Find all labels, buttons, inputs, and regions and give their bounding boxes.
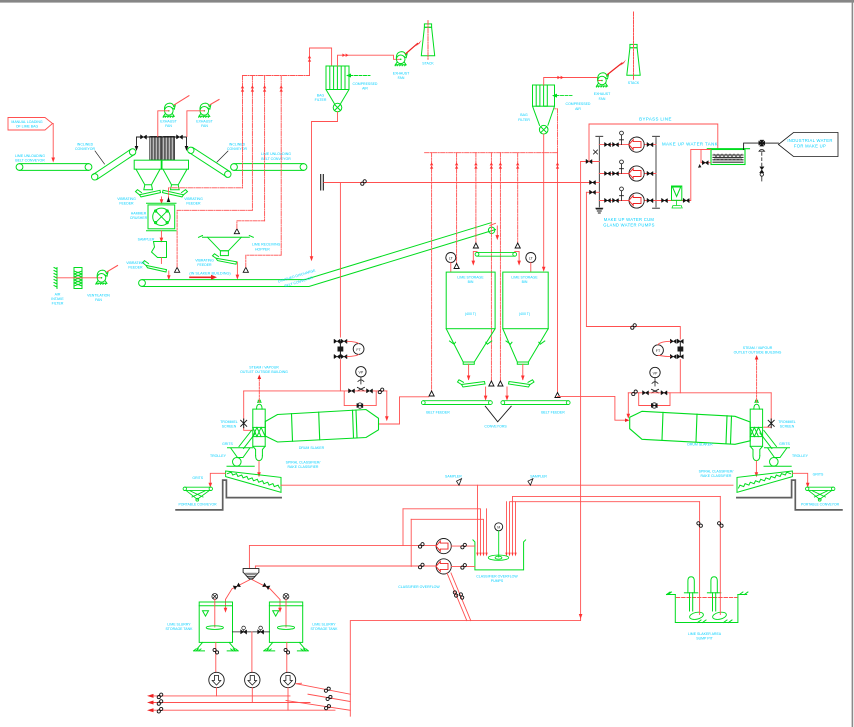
gland water to right slaker bbox=[586, 192, 680, 339]
orifice run valves upper (right) bbox=[670, 339, 676, 343]
feed line to left slaker bbox=[339, 183, 341, 338]
wire crusher to sampler bbox=[160, 231, 162, 239]
sump return line 2 bbox=[510, 502, 700, 553]
header block valve left bbox=[349, 389, 355, 393]
dust delta (left drum line) bbox=[429, 391, 434, 396]
wire feeders to crusher bbox=[161, 197, 163, 201]
slurry pump 1 bbox=[209, 672, 224, 687]
svg-text:BIN: BIN bbox=[468, 280, 474, 284]
conveyor left delta bbox=[473, 243, 478, 248]
svg-text:CLASSIFIER OVERFLOW: CLASSIFIER OVERFLOW bbox=[476, 575, 518, 579]
drum slaker (left) bbox=[265, 410, 378, 443]
dust manifold (upper) bbox=[243, 75, 310, 77]
svg-text:PUMPS: PUMPS bbox=[491, 579, 504, 583]
delivery line 3 bbox=[154, 709, 336, 711]
svg-text:LIME STORAGE: LIME STORAGE bbox=[457, 275, 484, 279]
svg-text:TROMMEL: TROMMEL bbox=[778, 420, 796, 424]
svg-text:FEEDER: FEEDER bbox=[197, 263, 212, 267]
svg-text:MANUAL LOADING: MANUAL LOADING bbox=[11, 120, 42, 124]
svg-text:SAMPLER: SAMPLER bbox=[138, 237, 155, 241]
dust line belt to manifold drop4 bbox=[246, 255, 281, 267]
feeder delta 2 bbox=[498, 381, 503, 386]
svg-text:STORAGE TANK: STORAGE TANK bbox=[310, 627, 338, 631]
manifold drop D between bins bbox=[490, 153, 492, 381]
wire vessel to classifier bbox=[258, 461, 260, 474]
flex on header bbox=[361, 180, 367, 186]
vertical vessel / trommel (right) bbox=[750, 400, 762, 460]
inter-tank drain line bbox=[233, 631, 270, 633]
trolley (left) bbox=[227, 448, 254, 466]
drum slaker (right) bbox=[630, 411, 751, 444]
svg-text:LIME SLURRY: LIME SLURRY bbox=[312, 622, 336, 626]
classifier overflow line bbox=[281, 484, 733, 486]
slurry pump 2 bbox=[245, 672, 260, 687]
hammer crusher bbox=[147, 203, 177, 230]
svg-text:FEEDER: FEEDER bbox=[186, 201, 201, 205]
LT instrument bin2 bbox=[526, 253, 536, 263]
discharge line 2 bbox=[589, 182, 599, 184]
svg-text:CONVEYOR: CONVEYOR bbox=[227, 147, 248, 151]
dust manifold (lower) bbox=[425, 152, 558, 154]
baghouse suction pipe (black) bbox=[137, 137, 187, 147]
wall penetration symbol bbox=[321, 175, 324, 191]
banner INDUSTRIAL WATER FOR MAKE UP bbox=[778, 133, 838, 157]
svg-text:(IN SLAKER BUILDING): (IN SLAKER BUILDING) bbox=[189, 272, 231, 276]
dust line belt to manifold drop2 bbox=[177, 210, 252, 267]
conveyor right delta bbox=[515, 243, 520, 248]
extra drop into tank right bbox=[515, 502, 517, 553]
bypass around control valve bbox=[344, 391, 376, 406]
grits chute (right) bbox=[760, 431, 777, 449]
bag filter (top centre) bbox=[326, 66, 349, 112]
sump pump 1 bbox=[684, 577, 704, 621]
discharge line 3 bbox=[586, 191, 599, 193]
steam vapour vent (left) bbox=[258, 378, 260, 403]
dust delta (right drum line) bbox=[555, 393, 560, 398]
flow arrow fan to stack (right) bbox=[608, 63, 623, 75]
pump tails to delivery lines bbox=[217, 688, 289, 711]
svg-text:FILTER: FILTER bbox=[52, 302, 64, 306]
svg-text:BAG: BAG bbox=[520, 113, 528, 117]
svg-text:HAMMER: HAMMER bbox=[131, 212, 147, 216]
svg-text:EXHAUST: EXHAUST bbox=[594, 92, 611, 96]
trommel spray valve (X) bbox=[241, 419, 247, 428]
gland water main down-centre bbox=[580, 162, 582, 620]
stack (right) bbox=[627, 44, 640, 75]
pump discharge header (right black) bbox=[653, 136, 660, 208]
drain leg with check bbox=[759, 149, 765, 181]
svg-text:FAN: FAN bbox=[599, 97, 606, 101]
pump discharge to distributor funnel bbox=[249, 545, 436, 567]
svg-text:LIME SLAKER AREA: LIME SLAKER AREA bbox=[688, 632, 722, 636]
manifold drop 4 bbox=[280, 76, 282, 256]
svg-text:INDUSTRIAL WATER: INDUSTRIAL WATER bbox=[787, 138, 832, 143]
control valve with actuator (right) bbox=[652, 378, 658, 386]
crushed discharge belt conveyor bbox=[139, 223, 496, 287]
svg-text:BELT FEEDER: BELT FEEDER bbox=[426, 411, 450, 415]
lime storage bin 2 bbox=[503, 272, 548, 364]
compressed air line (right) bbox=[556, 95, 572, 97]
bag filter (right) bbox=[533, 85, 555, 134]
sump riser 1 bbox=[699, 502, 701, 615]
discharge diagonals to lower header bbox=[447, 573, 471, 621]
drain drop to pump2 bbox=[251, 632, 253, 672]
wire conveyor to bin1 bbox=[473, 251, 477, 261]
wire to control station (right) bbox=[679, 360, 681, 393]
svg-text:VP: VP bbox=[359, 371, 364, 375]
svg-text:(400 T): (400 T) bbox=[519, 312, 530, 316]
svg-text:BELT FEEDER: BELT FEEDER bbox=[541, 411, 565, 415]
svg-text:FILTER: FILTER bbox=[315, 98, 327, 102]
wire right bag filter discharge into bin2 bbox=[543, 134, 545, 268]
wire manifold up to bag filter bbox=[310, 48, 332, 76]
svg-text:SCREEN: SCREEN bbox=[222, 425, 237, 429]
flex on right slaker line bbox=[631, 324, 637, 330]
dust line crusher to manifold bbox=[169, 188, 243, 200]
pump suction stubs bbox=[451, 546, 475, 566]
extra return drop bbox=[506, 502, 508, 553]
sampler 1 bbox=[457, 479, 462, 486]
orifice plate bbox=[338, 341, 343, 356]
wire bin1 outlet bbox=[468, 364, 470, 379]
bag filter cell (right, striped) bbox=[163, 137, 175, 161]
ventilation fan bbox=[96, 270, 108, 284]
spiral classifier (right) bbox=[737, 471, 792, 492]
orifice run valves upper bbox=[334, 339, 340, 343]
overflow pump 2 bbox=[436, 559, 451, 574]
header right leg to trommel valve (right stn) bbox=[764, 393, 771, 427]
wire conveyor to bin2 bbox=[515, 251, 519, 261]
bin distribution conveyor bbox=[475, 252, 516, 256]
svg-text:EXHAUST: EXHAUST bbox=[160, 120, 177, 124]
dust line hopper to manifold drop3 bbox=[237, 221, 265, 229]
sump pit bbox=[667, 592, 748, 623]
valve on baghouse pipe bbox=[177, 135, 183, 139]
svg-text:STORAGE TANK: STORAGE TANK bbox=[165, 627, 193, 631]
inclined conveyor (left) bbox=[92, 149, 136, 180]
svg-text:INCLINED: INCLINED bbox=[229, 142, 246, 146]
flow direction arrow bbox=[190, 276, 212, 278]
svg-text:CRUSHER: CRUSHER bbox=[130, 216, 148, 220]
banner MANUAL LOADING OF LIME BAG bbox=[8, 118, 53, 131]
pump suction header (left black) bbox=[596, 136, 603, 208]
svg-text:VIBRATING: VIBRATING bbox=[117, 197, 136, 201]
agitator tank2 bbox=[283, 594, 289, 600]
lime unloading belt conveyor (right) bbox=[231, 164, 307, 171]
svg-text:EXHAUST: EXHAUST bbox=[196, 120, 213, 124]
manifold drop F to conveyor right delta bbox=[517, 153, 519, 243]
svg-text:GRITS: GRITS bbox=[813, 472, 824, 476]
svg-text:TROLLEY: TROLLEY bbox=[210, 454, 227, 458]
svg-text:INCLINED: INCLINED bbox=[77, 142, 94, 146]
bag filter cell (left, striped) bbox=[150, 137, 162, 161]
header right leg into drum bbox=[386, 391, 388, 418]
inclined conveyor (right) bbox=[188, 147, 231, 177]
dust pickup on belt (left delta) bbox=[175, 267, 180, 272]
compressed air line bbox=[350, 75, 370, 77]
vibrating feeder (under right hopper) bbox=[163, 190, 188, 197]
svg-text:PORTABLE CONVEYOR: PORTABLE CONVEYOR bbox=[178, 502, 217, 506]
svg-text:AIR: AIR bbox=[575, 107, 581, 111]
svg-text:SPIRAL CLASSIFIER/: SPIRAL CLASSIFIER/ bbox=[699, 470, 734, 474]
svg-text:FAN: FAN bbox=[95, 298, 102, 302]
hopper (left) bbox=[136, 169, 160, 190]
make-up pump row 2 bbox=[599, 160, 656, 181]
svg-text:DRUM SLAKER: DRUM SLAKER bbox=[299, 446, 325, 450]
FT instrument bbox=[353, 344, 364, 355]
slurry pump 3 bbox=[280, 672, 295, 687]
agitator tank1 bbox=[212, 594, 218, 600]
manifold drop B to bin1 vent delta bbox=[456, 153, 458, 264]
svg-text:GRITS: GRITS bbox=[779, 442, 790, 446]
svg-text:FEEDER: FEEDER bbox=[128, 266, 143, 270]
belt feeder 1 bbox=[421, 401, 492, 405]
hopper (right) bbox=[163, 169, 187, 190]
flow arrow from ventilation fan bbox=[107, 266, 118, 272]
lime slurry storage tank 1 bbox=[194, 602, 239, 651]
manifold drop 2 bbox=[251, 76, 253, 211]
svg-text:STACK: STACK bbox=[628, 81, 640, 85]
bypass line bbox=[589, 124, 718, 162]
wire conveyor head discharge bbox=[490, 223, 497, 236]
svg-text:CLASSIFIER OVERFLOW: CLASSIFIER OVERFLOW bbox=[398, 585, 440, 589]
orifice run valves lower bbox=[334, 355, 340, 359]
svg-text:SCREEN: SCREEN bbox=[780, 425, 795, 429]
svg-text:RAKE CLASSIFIER: RAKE CLASSIFIER bbox=[701, 474, 732, 478]
recirculation line lower bbox=[411, 519, 483, 553]
orifice run valves lower (right) bbox=[670, 355, 676, 359]
svg-text:LIME STORAGE: LIME STORAGE bbox=[511, 275, 538, 279]
vibrating feeder (under receiving hopper) bbox=[213, 254, 237, 264]
water header to slakers bbox=[324, 182, 589, 184]
vertical risers verticals x403/x411 bbox=[403, 509, 411, 567]
flow arrow from left fan bbox=[174, 96, 189, 105]
svg-text:GRITS: GRITS bbox=[222, 442, 233, 446]
drop arrows into tank bbox=[476, 553, 478, 557]
exhaust fan (right) bbox=[596, 73, 608, 87]
bin2 discharge feeder bbox=[509, 380, 535, 387]
svg-text:MAKE UP WATER CUM: MAKE UP WATER CUM bbox=[604, 217, 655, 222]
svg-text:AIR: AIR bbox=[362, 86, 368, 90]
svg-text:RAKE CLASSIFIER: RAKE CLASSIFIER bbox=[288, 465, 319, 469]
belt feeder 2 bbox=[501, 401, 570, 405]
vibrating feeder (below sampler) bbox=[143, 261, 167, 272]
wire right bag filter to exhaust fan bbox=[544, 78, 602, 86]
orifice plate (right) bbox=[678, 341, 683, 356]
sump riser 2 bbox=[719, 496, 721, 614]
bin1 vent delta bbox=[454, 264, 459, 269]
svg-text:OF LIME BAG: OF LIME BAG bbox=[16, 125, 39, 129]
small vent valve top left of header bbox=[594, 150, 598, 154]
svg-text:VIBRATING: VIBRATING bbox=[195, 258, 214, 262]
svg-text:VP: VP bbox=[653, 371, 658, 375]
header block valve right (right stn) bbox=[661, 391, 667, 395]
distributor funnel bbox=[243, 569, 259, 580]
sampler 2 bbox=[528, 479, 533, 486]
sump pump 2 bbox=[707, 577, 727, 621]
wire bin2 outlet bbox=[522, 364, 524, 379]
svg-text:SPIRAL CLASSIFIER/: SPIRAL CLASSIFIER/ bbox=[286, 461, 321, 465]
LT instrument bin1 bbox=[446, 253, 456, 263]
manifold drop 1 bbox=[242, 76, 244, 188]
svg-text:CONVEYORS: CONVEYORS bbox=[484, 425, 507, 429]
svg-text:VIBRATING: VIBRATING bbox=[184, 197, 203, 201]
lime unloading belt conveyor (left) bbox=[16, 164, 92, 171]
tank1 outlet to pump1 bbox=[215, 642, 217, 672]
wire feeder to belt feeder 1 bbox=[485, 387, 487, 397]
delivery line 1 bbox=[154, 695, 291, 697]
wire bag filter to exhaust fan bbox=[338, 55, 401, 66]
svg-text:FAN: FAN bbox=[165, 124, 172, 128]
svg-text:FAN: FAN bbox=[201, 124, 208, 128]
wire vessel to classifier (right) bbox=[755, 461, 757, 474]
flow arrow from right fan bbox=[210, 100, 219, 105]
make-up pump row 3 bbox=[599, 187, 656, 208]
manifold drop G to drum dust delta (right) bbox=[557, 153, 559, 393]
air intake filter bbox=[54, 268, 82, 289]
VP positioner (right) bbox=[650, 367, 660, 377]
strainer (green) bbox=[672, 186, 683, 208]
extra drop into tank bbox=[486, 509, 488, 553]
wire to control station bbox=[339, 360, 341, 391]
make-up water tank bbox=[707, 149, 749, 165]
steam vapour vent (right) bbox=[756, 358, 758, 402]
lime storage bin 1 bbox=[446, 272, 495, 364]
overflow pump 1 bbox=[436, 539, 451, 554]
sump return line 1 bbox=[513, 496, 721, 553]
valve on baghouse pipe bbox=[141, 135, 147, 139]
svg-text:CONVEYOR: CONVEYOR bbox=[75, 147, 96, 151]
delivery line 2 bbox=[154, 702, 311, 704]
svg-text:LIME UNLOADING: LIME UNLOADING bbox=[15, 154, 45, 158]
svg-text:BAG: BAG bbox=[317, 94, 325, 98]
svg-text:STEAM / VAPOUR: STEAM / VAPOUR bbox=[743, 346, 773, 350]
svg-text:BELT CONVEYOR: BELT CONVEYOR bbox=[261, 157, 291, 161]
slaker water header bbox=[244, 390, 387, 392]
wire sampler down bbox=[160, 258, 162, 264]
svg-text:TROMMEL: TROMMEL bbox=[220, 420, 238, 424]
transfer diagonals to x350 riser bbox=[296, 683, 350, 694]
flex on header left (right stn) bbox=[632, 390, 638, 396]
portable conveyor (left) bbox=[183, 487, 212, 501]
svg-text:LIME SLURRY: LIME SLURRY bbox=[167, 622, 191, 626]
gland dust line from left drum tip bbox=[379, 397, 429, 424]
svg-text:OUTLET OUTSIDE BUILDING: OUTLET OUTSIDE BUILDING bbox=[240, 370, 288, 374]
manifold drop 3 bbox=[264, 76, 266, 221]
exhaust fan (top centre) bbox=[395, 52, 407, 66]
svg-text:DRUM SLAKER: DRUM SLAKER bbox=[687, 443, 713, 447]
feeder delta 1 bbox=[489, 381, 494, 386]
svg-text:(400 T): (400 T) bbox=[465, 312, 476, 316]
bypass globe valve bbox=[357, 404, 363, 408]
spiral classifier (left) bbox=[226, 471, 281, 492]
lime receiving hopper bbox=[199, 236, 254, 256]
slaker water header (right) bbox=[628, 392, 771, 394]
make-up pump row 1 bbox=[599, 131, 656, 152]
svg-text:VIBRATING: VIBRATING bbox=[126, 261, 145, 265]
svg-text:LIME RECEIVING: LIME RECEIVING bbox=[252, 243, 281, 247]
svg-text:BYPASS LINE: BYPASS LINE bbox=[639, 117, 672, 122]
stack (left) bbox=[421, 24, 434, 56]
grits line classifier to portable conveyor bbox=[210, 473, 225, 484]
exhaust fan (left of baghouse) bbox=[163, 103, 175, 117]
lower transfer header bbox=[350, 619, 580, 716]
funnel to tank1 bbox=[226, 580, 250, 609]
grits chute (left) bbox=[239, 431, 256, 449]
exhaust fan (right of baghouse) bbox=[199, 103, 211, 117]
svg-text:FOR MAKE UP: FOR MAKE UP bbox=[794, 143, 826, 148]
vibrating feeder (under left hopper) bbox=[136, 190, 161, 197]
svg-text:HOPPER: HOPPER bbox=[255, 247, 270, 251]
svg-text:BELT CONVEYOR: BELT CONVEYOR bbox=[15, 159, 45, 163]
dust pickup above hopper (delta) bbox=[234, 229, 239, 234]
svg-text:SAMPLER: SAMPLER bbox=[445, 475, 462, 479]
overflow drop from classifier line bbox=[477, 485, 479, 553]
FT instrument (right) bbox=[653, 345, 664, 356]
lime slurry storage tank 2 bbox=[264, 602, 309, 651]
pit walls (right) bbox=[737, 480, 842, 510]
bypass around control valve (right) bbox=[639, 393, 670, 406]
sump level line bbox=[676, 597, 737, 599]
flow arrow fan to stack bbox=[406, 44, 418, 54]
wire receiving feeder to belt bbox=[236, 262, 238, 276]
svg-text:FAN: FAN bbox=[398, 76, 405, 80]
svg-text:GLAND WATER PUMPS: GLAND WATER PUMPS bbox=[603, 222, 654, 227]
VP positioner bbox=[356, 367, 366, 377]
suction from tank bbox=[656, 149, 711, 200]
svg-text:M: M bbox=[497, 526, 500, 530]
manifold drop C to conveyor head delta bbox=[475, 153, 477, 243]
flex on header right bbox=[378, 388, 384, 394]
svg-text:OUTLET OUTSIDE BUILDING: OUTLET OUTSIDE BUILDING bbox=[734, 351, 782, 355]
svg-text:COMPRESSED: COMPRESSED bbox=[353, 82, 378, 86]
svg-text:SUMP PIT: SUMP PIT bbox=[696, 637, 713, 641]
svg-text:STACK: STACK bbox=[422, 62, 434, 66]
svg-text:BIN: BIN bbox=[522, 280, 528, 284]
wire bag filter discharge to conveyor bbox=[312, 112, 338, 258]
industrial water supply (black) bbox=[744, 143, 759, 149]
portable conveyor (right) bbox=[806, 487, 835, 501]
ground symbol under header bbox=[596, 209, 602, 213]
svg-text:FEEDER: FEEDER bbox=[119, 201, 134, 205]
manifold drop E between bins bbox=[499, 153, 501, 381]
tank fill from pump line bbox=[701, 149, 711, 162]
sampler bbox=[152, 242, 167, 258]
overflow collection tank bbox=[473, 540, 526, 570]
svg-text:MAKE UP WATER TANK: MAKE UP WATER TANK bbox=[662, 142, 718, 147]
grits line classifier to portable conveyor (right) bbox=[792, 473, 807, 484]
wire filter to ventilation fan bbox=[57, 277, 102, 279]
svg-text:LIME UNLOADING: LIME UNLOADING bbox=[261, 152, 291, 156]
header left leg to trommel valve bbox=[244, 391, 253, 430]
conveyors chute bbox=[485, 406, 511, 422]
dust pickup on belt (right delta) bbox=[243, 267, 248, 272]
trommel spray valve X (right) bbox=[768, 419, 774, 428]
baghouse bin (left) bbox=[134, 160, 161, 169]
right frame line bbox=[852, 0, 854, 727]
svg-text:FILTER: FILTER bbox=[518, 118, 530, 122]
manifold drop A to drum dust delta (left) bbox=[431, 153, 433, 391]
header left leg into drum (right stn) bbox=[627, 393, 629, 415]
wire fan discharge (left) bbox=[158, 111, 169, 137]
pit walls (left) bbox=[176, 480, 281, 510]
discharge line 1 bbox=[581, 161, 600, 163]
svg-text:INTAKE: INTAKE bbox=[51, 297, 64, 301]
agitator shaft and impeller bbox=[498, 531, 500, 557]
svg-text:TROLLEY: TROLLEY bbox=[792, 454, 809, 458]
svg-text:EXHAUST: EXHAUST bbox=[393, 72, 410, 76]
svg-text:GRITS: GRITS bbox=[192, 476, 203, 480]
